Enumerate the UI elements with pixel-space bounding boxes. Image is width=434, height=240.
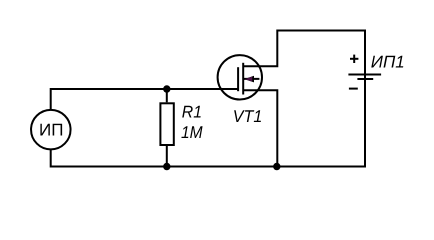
- svg-text:ИП: ИП: [39, 121, 63, 140]
- svg-text:1M: 1M: [181, 123, 203, 142]
- svg-text:VT1: VT1: [233, 107, 262, 126]
- svg-text:R1: R1: [182, 102, 202, 121]
- svg-text:ИП1: ИП1: [371, 52, 405, 71]
